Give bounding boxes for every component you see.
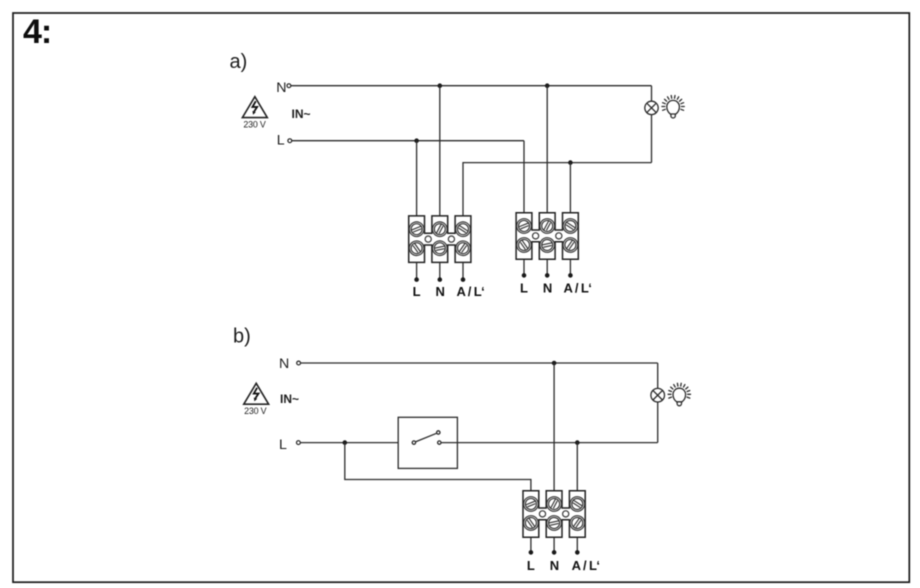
svg-text:b): b) [233,326,251,348]
wire block X1 tail at x=439.8 [439,262,441,279]
switch S1 contacts and blade [412,431,441,445]
junction dot A/L' to block X2 [568,160,573,165]
wire lamp return down (b) [657,402,659,443]
wire block X2 tail at x=524.0 [523,259,525,275]
terminal screw 1 of block X2 [514,216,533,235]
lightning bolt inside warning triangle [252,101,257,111]
wire L feed to block X3 (b) [345,443,531,491]
terminal block X3: 3-gang screw terminal strip [521,491,588,538]
svg-text:N: N [550,558,559,573]
open terminal circle L input (b) [297,441,301,445]
wire block X2 tail at x=570.4 [569,259,571,275]
wire L horizontal (a) [292,140,524,142]
wire switched L to lamp (b) [441,442,658,444]
svg-text:L: L [527,558,535,573]
svg-text:N: N [436,284,445,299]
junction dot A/L' junction (b) [575,440,580,445]
svg-text:N: N [543,280,552,295]
wire N horizontal (a) [291,85,652,87]
terminal screw 2 of block X2 [537,216,557,236]
junction dot N to block X1 [438,83,443,88]
junction dot block X1 tail end [461,277,466,282]
wire A/L' return line (a) [463,163,652,216]
terminal screw 4 of block X3 [521,513,541,533]
terminal screw 2 of block X1 [430,219,450,239]
svg-text:IN~: IN~ [292,107,311,121]
svg-text:A / L‘: A / L‘ [564,280,592,295]
wire A/L' drop to block X2 (a) [569,163,571,213]
wire N drop to block X2 (a) [546,86,548,213]
wire N drop to block X1 (a) [439,86,441,216]
lamp E2 (b): circle-with-cross lamp symbol [651,388,665,402]
svg-text:a): a) [230,51,248,73]
terminal screw 5 of block X2 [539,236,556,253]
wire L to switch (b) [300,442,412,444]
junction dot block X2 tail end [568,273,573,278]
230V hazard warning triangle (a) [242,97,267,118]
junction dot L branch to block X3 [343,440,348,445]
wire block X1 tail at x=463.0 [462,262,464,279]
svg-text:230 V: 230 V [244,406,266,416]
light bulb icon (a): radiating light bulb pictogram [662,96,684,119]
open terminal circle N input (b) [297,361,301,365]
wire L drop to block X2 (a) [523,141,525,213]
wire block X3 tail at x=530.9 [530,537,532,552]
junction dot block X2 tail end [522,273,527,278]
wire A/L' drop to block X3 (b) [576,443,578,491]
svg-text:230 V: 230 V [243,120,265,130]
terminal screw 5 of block X3 [545,514,562,531]
terminal screw 6 of block X1 [453,238,473,258]
junction dot block X1 tail end [414,277,419,282]
wire N horizontal (b) [301,362,658,364]
svg-text:4:: 4: [23,13,51,51]
svg-text:A / L‘: A / L‘ [572,558,600,573]
light bulb icon (b): radiating light bulb pictogram [668,383,690,406]
junction dot L to block X1 [414,138,419,143]
svg-text:L: L [279,437,287,453]
junction dot block X3 tail end [529,550,534,555]
svg-text:L: L [520,280,528,295]
mounting holes of block X3 [539,511,545,517]
open terminal circle L input (a) [288,139,292,143]
lightning bolt inside warning triangle [254,388,259,398]
terminal screw 3 of block X2 [560,216,580,236]
wire N down to lamp (a) [651,86,653,102]
switch S1 enclosure box [398,417,457,468]
wire block X2 tail at x=547.2 [546,259,548,275]
terminal screw 6 of block X2 [560,235,580,255]
svg-text:A / L‘: A / L‘ [456,284,484,299]
svg-text:L: L [413,284,421,299]
wire block X3 tail at x=554.1 [553,537,555,552]
terminal screw 4 of block X1 [406,238,426,258]
terminal screw 4 of block X2 [514,235,534,255]
wire N down to lamp (b) [657,363,659,388]
junction dot block X2 tail end [545,273,550,278]
wire block X3 tail at x=577.3 [576,537,578,552]
open terminal circle N input (a) [287,84,291,88]
wire N drop to block X3 crossing L (b) [553,363,555,491]
svg-text:IN~: IN~ [280,392,299,406]
svg-text:N: N [279,356,289,372]
terminal screw 5 of block X1 [431,240,448,257]
junction dot block X1 tail end [438,277,443,282]
lamp E1 (a): circle-with-cross lamp symbol [645,101,658,114]
terminal screw 2 of block X3 [544,494,564,514]
junction dot N to block X2 [545,83,550,88]
wire block X1 tail at x=416.6 [416,262,418,279]
wire L drop to block X1 (a) [416,141,418,216]
wire lamp return down (a) [651,115,653,163]
230V hazard warning triangle (b) [244,383,269,404]
terminal block X1: 3-gang screw terminal strip [406,216,473,263]
junction dot block X3 tail end [552,550,557,555]
mounting holes of block X1 [425,236,431,242]
terminal screw 6 of block X3 [567,513,587,533]
svg-text:L: L [277,132,285,148]
junction dot block X3 tail end [575,550,580,555]
mounting holes of block X2 [533,233,539,239]
junction dot N to block X3 [552,361,557,366]
terminal screw 1 of block X1 [407,220,426,239]
terminal screw 1 of block X3 [521,494,540,513]
terminal block X2: 3-gang screw terminal strip [514,213,581,260]
terminal screw 3 of block X3 [567,494,587,514]
terminal screw 3 of block X1 [453,219,473,239]
svg-text:N: N [276,80,286,96]
